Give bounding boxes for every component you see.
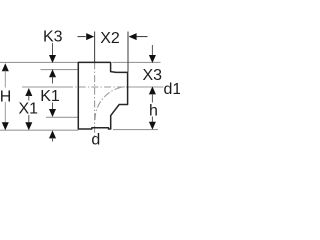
branch axis extension right (d1 line) bbox=[128, 86, 164, 88]
X2 right extension bbox=[127, 32, 129, 72]
svg-text:d1: d1 bbox=[164, 81, 181, 98]
svg-text:h: h bbox=[149, 102, 158, 119]
svg-text:X2: X2 bbox=[100, 30, 120, 47]
dimension X1 bbox=[19, 88, 39, 130]
dimension X3 bbox=[143, 45, 163, 94]
branch axis centerline bbox=[66, 86, 128, 88]
dimension H bbox=[0, 63, 11, 130]
top reference line bbox=[0, 61, 78, 63]
main axis centerline bbox=[94, 62, 96, 136]
branch axis extension left bbox=[22, 86, 66, 88]
K3 lower reference line bbox=[41, 69, 79, 71]
X2 left extension (main axis above fitting) bbox=[94, 32, 96, 63]
baseline right bbox=[113, 129, 158, 131]
dimension X2 bbox=[78, 30, 148, 47]
K1 upper reference line bbox=[46, 116, 78, 118]
baseline left bbox=[0, 129, 78, 131]
fitting outline bbox=[78, 62, 127, 129]
dimension K3 bbox=[43, 29, 63, 84]
svg-text:X3: X3 bbox=[143, 67, 163, 84]
svg-text:K1: K1 bbox=[40, 88, 60, 105]
dimension K1 bbox=[40, 88, 60, 142]
svg-text:d: d bbox=[91, 131, 100, 148]
dimension h bbox=[149, 94, 158, 130]
swept branch centerline arc bbox=[95, 87, 128, 120]
